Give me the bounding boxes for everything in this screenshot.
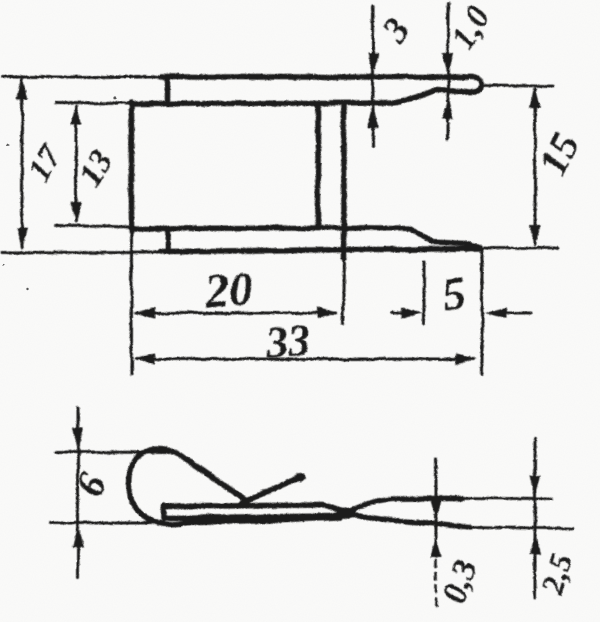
dim 15 arrows bbox=[529, 86, 540, 247]
dim 2,5 line bbox=[534, 438, 537, 598]
part bottom line bbox=[161, 249, 481, 252]
part top rail with right hook bbox=[131, 77, 481, 104]
ext line top-left for 17 bbox=[2, 76, 161, 79]
ext vertical right wall down bbox=[343, 258, 344, 324]
dim 33 line bbox=[136, 358, 474, 361]
dim 17 arrows bbox=[16, 77, 27, 250]
strip top line bbox=[164, 505, 352, 513]
fork lower bbox=[352, 515, 470, 528]
dim 3 line bbox=[372, 7, 375, 146]
scan specks bbox=[3, 96, 117, 290]
dim 5 left arrow bbox=[392, 312, 402, 315]
rectangle left edge bbox=[129, 102, 135, 231]
tip blob bbox=[294, 473, 305, 481]
dim 0,3 arrows bbox=[430, 500, 441, 557]
waist knot bbox=[336, 508, 356, 519]
loop bbox=[128, 449, 340, 524]
diagonal arm bbox=[184, 458, 247, 502]
dim 15 line bbox=[534, 89, 537, 244]
dim 13 arrows bbox=[70, 104, 81, 224]
strip left cap bbox=[161, 505, 167, 519]
dim 5 right arrow bbox=[506, 312, 531, 315]
tip flick bbox=[241, 476, 302, 503]
svg-text:20: 20 bbox=[202, 262, 255, 318]
jog at top notch bbox=[165, 78, 171, 102]
rectangle bottom edge bbox=[131, 225, 318, 231]
dim 0,3 line bbox=[435, 459, 438, 556]
claw tip fill bbox=[466, 240, 484, 252]
bottom notch vertical bbox=[165, 228, 171, 251]
dim 6 arrows bbox=[72, 428, 83, 548]
strip bottom line bbox=[164, 514, 352, 519]
dim 20 arrows bbox=[133, 307, 339, 318]
ext bottom for 13 bbox=[56, 226, 131, 228]
dim 33 arrows bbox=[133, 353, 477, 364]
dim 2,5 arrows bbox=[529, 475, 540, 554]
dim 1,0 arrows bbox=[442, 53, 453, 119]
dim 3 arrows bbox=[367, 53, 378, 128]
ext top for 15 bbox=[480, 84, 553, 87]
fork lower ext thin bbox=[470, 527, 573, 529]
fork upper bbox=[350, 498, 462, 511]
fork upper ext thin bbox=[462, 498, 552, 499]
dim 20 line bbox=[136, 312, 336, 315]
ext line bottom-left for 17 bbox=[2, 251, 161, 255]
ext top for 13 bbox=[56, 102, 131, 106]
ext right for 2,5 top bbox=[519, 498, 552, 501]
ext vertical x482 down bbox=[481, 251, 484, 374]
right wall vertical bbox=[341, 103, 347, 258]
dim 6 line bbox=[77, 408, 80, 577]
svg-text:33: 33 bbox=[263, 316, 311, 368]
dim 1,0 line bbox=[447, 3, 450, 139]
ext bottom for 6 bbox=[50, 522, 166, 525]
ext vertical x131 down bbox=[130, 231, 133, 374]
dim 13 line bbox=[75, 107, 78, 221]
dim 17 line bbox=[21, 80, 24, 247]
ext vertical for 5 left bbox=[423, 262, 426, 324]
rectangle right edge bbox=[315, 104, 321, 228]
ext top for 6 bbox=[56, 451, 172, 455]
ext bottom for 15 bbox=[484, 247, 558, 250]
claw upper line with ramp bbox=[318, 228, 481, 248]
